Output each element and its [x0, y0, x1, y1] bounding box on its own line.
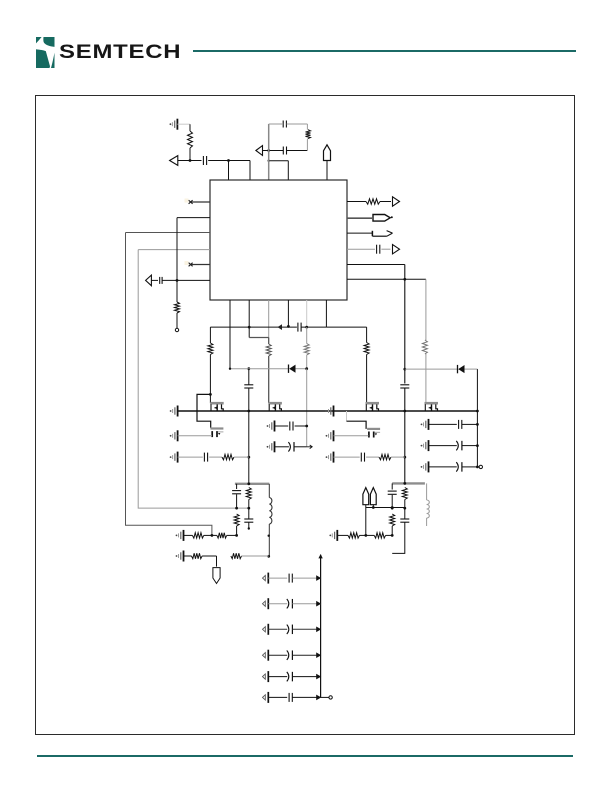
wire — [391, 495, 393, 508]
wire — [229, 300, 231, 369]
capacitor C8 — [244, 385, 253, 388]
capacitor C11 — [288, 442, 294, 452]
ground GND9 — [326, 452, 334, 463]
wire — [138, 250, 249, 509]
resistor R4 — [366, 199, 380, 204]
capacitor C7 — [298, 323, 327, 332]
wire — [176, 313, 178, 328]
wire — [347, 232, 372, 234]
wire — [249, 161, 251, 181]
wire — [306, 300, 308, 327]
wire — [425, 279, 427, 340]
ground GND2 — [170, 406, 178, 417]
wire — [234, 456, 249, 458]
wire — [306, 327, 308, 369]
capacitor C17 — [244, 519, 253, 522]
transistor Q3b — [367, 429, 380, 438]
resistor R14 — [192, 533, 203, 538]
wire — [465, 368, 478, 370]
ground GND4 — [170, 452, 178, 463]
wire — [326, 326, 366, 328]
ground GND3 — [170, 430, 178, 441]
capacitor C21 — [263, 598, 322, 609]
wire — [268, 300, 270, 338]
pin 1 — [185, 199, 211, 204]
wire — [228, 161, 230, 181]
resistor R21 — [374, 533, 385, 538]
ground GND5 — [267, 421, 275, 432]
wire — [426, 483, 428, 526]
capacitor C24 — [263, 671, 322, 682]
wire — [306, 124, 308, 151]
wire — [366, 506, 405, 509]
wire — [391, 526, 394, 537]
wire — [287, 150, 308, 152]
wire — [178, 410, 479, 413]
transistor Q1b — [210, 429, 223, 438]
wire — [295, 425, 307, 427]
inductor L1 — [269, 498, 272, 525]
resistor R18 — [402, 488, 407, 500]
wire — [204, 534, 217, 537]
capacitor C16 — [232, 491, 241, 494]
connector J8 — [393, 245, 400, 254]
wire — [247, 369, 250, 485]
wire — [197, 394, 211, 427]
ground GND13 — [176, 530, 184, 541]
wire — [334, 456, 360, 458]
resistor R16 — [192, 553, 203, 558]
wire — [366, 327, 368, 342]
wire — [189, 148, 192, 162]
node — [175, 328, 178, 331]
resistor R10 — [222, 454, 234, 459]
capacitor C15 — [421, 461, 479, 472]
resistor R8 — [304, 344, 309, 356]
ground GND7 — [326, 406, 334, 417]
wire — [268, 338, 270, 345]
wire — [151, 279, 158, 281]
wire — [126, 233, 212, 536]
diode D3 — [289, 365, 296, 373]
connector J9 — [213, 568, 220, 584]
wire — [366, 355, 368, 404]
wire — [178, 456, 203, 458]
resistor R2 — [306, 130, 311, 139]
resistor R13 — [234, 514, 239, 526]
resistor R3 — [175, 302, 180, 313]
wire — [242, 535, 270, 557]
capacitor C1 — [203, 156, 206, 165]
wire — [325, 300, 327, 327]
wire — [366, 505, 374, 536]
connector J3 — [324, 145, 331, 161]
diode D1 — [458, 365, 465, 373]
wire — [209, 327, 211, 343]
resistor R12 — [246, 488, 251, 500]
resistor R17 — [231, 553, 242, 558]
capacitor C22 — [263, 624, 322, 635]
wire — [236, 484, 238, 489]
capacitor C23 — [263, 650, 322, 661]
wire — [249, 337, 269, 339]
wire — [208, 159, 250, 162]
wire — [235, 526, 238, 537]
wire — [177, 124, 190, 131]
wire — [209, 456, 222, 458]
wire — [178, 160, 202, 162]
connector J2 — [256, 146, 263, 156]
wire — [267, 484, 270, 558]
node — [403, 368, 406, 371]
wire — [235, 500, 250, 510]
wire — [360, 534, 375, 537]
wire — [391, 500, 406, 510]
wire — [476, 411, 478, 467]
wire — [305, 369, 308, 447]
resistor R20 — [348, 533, 360, 538]
connector J4 — [146, 275, 152, 286]
capacitor C18 — [388, 491, 397, 494]
connector J5 — [393, 197, 400, 206]
resistor R7 — [266, 344, 271, 356]
capacitor C25 — [263, 692, 333, 703]
wire — [381, 248, 390, 250]
Semtech logo mark — [36, 37, 55, 68]
connector J1 — [170, 156, 178, 166]
wire — [275, 425, 289, 427]
wire — [425, 354, 427, 403]
resistor R6 — [208, 343, 213, 355]
wire — [347, 248, 375, 250]
wire — [235, 482, 269, 485]
capacitor C3 — [283, 121, 286, 128]
wire — [229, 368, 289, 370]
transistor Q1 — [210, 403, 224, 411]
wire — [391, 456, 405, 458]
ground GND6 — [267, 441, 275, 452]
capacitor C5 — [377, 245, 380, 254]
wire — [347, 278, 426, 281]
capacitor C2 — [283, 147, 286, 155]
ground GND15 — [329, 530, 337, 541]
wire — [334, 435, 369, 437]
wire — [366, 456, 379, 458]
inductor L2 — [427, 500, 430, 518]
op-amp U1 controller — [210, 180, 347, 300]
node — [479, 465, 482, 468]
wire — [392, 508, 405, 553]
wire — [263, 149, 284, 152]
wire — [268, 160, 289, 181]
capacitor C9 — [204, 453, 207, 462]
connector J11 — [370, 488, 376, 505]
capacitor C14 — [421, 440, 479, 451]
node — [247, 367, 250, 370]
wire — [403, 388, 406, 483]
wire — [391, 483, 393, 489]
wire — [404, 265, 406, 384]
wire — [294, 445, 312, 449]
wire — [268, 124, 270, 180]
footer rule — [37, 755, 573, 757]
wire — [380, 201, 391, 203]
wire — [296, 367, 309, 370]
capacitor C19 — [400, 519, 409, 522]
resistor R19 — [390, 514, 395, 526]
transistor Q2 — [268, 403, 282, 411]
connector J6 — [373, 215, 393, 222]
diode D2 — [278, 324, 283, 330]
wire — [236, 494, 238, 508]
wire — [392, 482, 425, 485]
wire — [126, 232, 211, 234]
wire — [184, 555, 192, 557]
wire — [347, 411, 367, 429]
Semtech wordmark — [59, 42, 181, 64]
wire — [177, 217, 210, 219]
transistor Q3 — [366, 403, 380, 411]
header rule — [193, 50, 576, 52]
wire — [178, 435, 212, 437]
wire — [269, 123, 308, 125]
wire — [248, 300, 250, 338]
resistor R1 — [188, 131, 193, 148]
resistor R15 — [217, 533, 227, 538]
wire — [347, 201, 366, 203]
resistor R5 — [422, 340, 427, 354]
pin 2 — [185, 261, 211, 266]
ground GND8 — [326, 430, 334, 441]
wire — [138, 249, 210, 251]
capacitor C4 — [160, 277, 162, 284]
capacitor C10 — [290, 422, 293, 431]
wire — [476, 369, 478, 411]
wire — [287, 300, 290, 328]
wire — [318, 554, 322, 697]
wire — [162, 279, 210, 282]
connector J7 — [372, 231, 392, 237]
wire — [347, 217, 372, 219]
capacitor C20 — [263, 573, 322, 584]
transistor Q4 — [425, 403, 439, 411]
wire — [268, 356, 270, 403]
wire — [184, 534, 193, 536]
capacitor C6 — [400, 385, 409, 388]
wire — [386, 534, 393, 536]
connector J10 — [363, 488, 369, 505]
wire — [275, 446, 289, 448]
wire — [337, 534, 348, 536]
wire — [405, 368, 458, 370]
ground GND1 — [170, 119, 178, 130]
capacitor C12 — [361, 453, 364, 462]
wire — [248, 508, 250, 530]
ground GND14 — [176, 551, 184, 562]
wire — [210, 326, 297, 329]
wire — [227, 534, 237, 536]
wire — [209, 355, 212, 404]
wire — [326, 161, 328, 181]
wire — [347, 264, 405, 266]
wire — [176, 218, 178, 302]
resistor R11 — [379, 454, 391, 459]
wire — [202, 556, 216, 567]
capacitor C13 — [421, 419, 479, 430]
resistor R9 — [364, 343, 369, 355]
